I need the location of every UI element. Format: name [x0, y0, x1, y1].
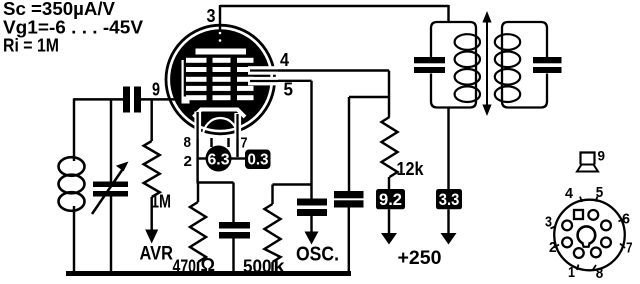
wire pin5 vertical to osc cap — [310, 81, 312, 199]
wire varcap branch lower — [110, 197, 112, 273]
socket pin 5 — [588, 210, 598, 220]
resistor R1 1M zigzag — [144, 141, 160, 197]
tube internal wires black — [198, 71, 278, 141]
variable capacitor C1 plates — [93, 182, 128, 188]
svg-text:AVR: AVR — [140, 244, 174, 265]
svg-text:Ω: Ω — [201, 255, 216, 275]
AVR arrowhead — [145, 230, 158, 244]
wire pin7 down — [236, 112, 238, 157]
svg-text:3: 3 — [545, 214, 552, 231]
chassis ground rail — [66, 271, 351, 276]
tube anode bar — [196, 49, 247, 55]
capacitor C6 left tank — [414, 57, 445, 63]
svg-text:470: 470 — [173, 257, 197, 277]
svg-text:9.2: 9.2 — [379, 191, 402, 209]
wire heater stub right — [227, 138, 229, 147]
wire 470 bottom lead — [197, 262, 199, 272]
svg-text:5: 5 — [284, 80, 294, 100]
wire 500k bottom lead — [271, 262, 273, 272]
wire 1M branch — [150, 99, 152, 141]
wire osc arrow shaft — [310, 216, 312, 234]
svg-text:OSC.: OSC. — [296, 244, 339, 266]
svg-text:6.3: 6.3 — [208, 152, 230, 169]
socket pin 3 — [562, 221, 572, 231]
T1 tuning arrow — [486, 20, 488, 108]
svg-text:3: 3 — [207, 6, 216, 26]
socket pin 4 square — [574, 210, 583, 219]
wire pin5 horizontal — [250, 80, 312, 82]
socket pin 1 — [574, 248, 584, 258]
box 3.3 (mA) — [436, 189, 462, 209]
capacitor C5 screen bypass — [334, 191, 364, 198]
wire tank entry vertical — [447, 5, 449, 22]
socket circle — [554, 200, 625, 271]
wire pin4 vertical to 12k — [388, 71, 390, 118]
wire screen branch vertical to cap — [348, 97, 350, 191]
tube V1 inner disk — [170, 29, 270, 129]
svg-text:3.3: 3.3 — [439, 191, 460, 209]
T1 secondary winding loops — [495, 34, 520, 102]
socket pin 7 — [601, 238, 611, 248]
capacitor C7 right tank — [533, 57, 562, 63]
svg-text:1: 1 — [568, 264, 575, 281]
wire 500k top horizontal — [273, 183, 312, 185]
tube pin3 white dots — [219, 32, 222, 35]
svg-text:6: 6 — [622, 211, 630, 228]
wire 470 top lead — [197, 183, 199, 203]
wire 9.2 arrow shaft — [388, 209, 390, 234]
svg-text:k: k — [274, 257, 286, 277]
capacitor C4 osc coupling — [297, 199, 327, 206]
socket pin 2 — [562, 238, 572, 248]
socket pin 6 — [601, 221, 611, 231]
wire 12k to 9.2 box — [388, 177, 390, 189]
tube grid side rod — [182, 60, 184, 101]
wire 3.3 arrow shaft — [447, 209, 449, 234]
wire cathode junction horizontal — [197, 181, 234, 183]
wire pin2 cathode down — [196, 106, 198, 183]
svg-text:7: 7 — [626, 240, 633, 257]
wire left rail lower — [73, 206, 75, 272]
resistor R3 500k zigzag — [265, 204, 281, 262]
wire left rail upper — [73, 98, 75, 161]
variable capacitor arrow — [92, 168, 124, 214]
box 9.2 (mA) — [376, 189, 405, 209]
wire left horizontal grid line — [74, 98, 123, 100]
IF transformer T1 left tank loop with cap gap — [431, 22, 476, 108]
svg-text:2: 2 — [184, 153, 193, 170]
wire pin3 vertical into tube — [219, 5, 221, 30]
wire cath cap bottom lead — [232, 239, 234, 273]
svg-text:0.3: 0.3 — [248, 152, 269, 169]
svg-text:7: 7 — [241, 135, 248, 152]
svg-text:1M: 1M — [151, 192, 171, 212]
arrow +250 left — [381, 233, 397, 245]
socket top cap symbol — [581, 153, 595, 165]
wire cath cap top lead — [232, 183, 234, 223]
resistor R2 470 zigzag — [190, 202, 206, 262]
OSC arrowhead — [305, 232, 319, 245]
tube V1 outer envelope — [166, 25, 275, 134]
socket spigot key — [578, 226, 596, 244]
capacitor C3 cathode bypass — [219, 222, 250, 229]
svg-text:500: 500 — [243, 257, 272, 277]
svg-text:9: 9 — [152, 80, 160, 100]
socket ticks — [551, 197, 626, 271]
svg-text:+250: +250 — [398, 247, 442, 269]
svg-text:8: 8 — [184, 134, 192, 151]
svg-text:9: 9 — [598, 148, 606, 164]
wire screen cap to rail — [348, 208, 350, 274]
svg-text:12k: 12k — [397, 159, 425, 179]
svg-text:5: 5 — [596, 184, 604, 201]
svg-text:Sc =350µA/V: Sc =350µA/V — [3, 0, 115, 19]
resistor R4 12k zigzag — [382, 117, 398, 177]
wire heater left link — [198, 157, 208, 159]
wire grid cap to tube — [141, 98, 186, 100]
svg-text:Ri = 1M: Ri = 1M — [3, 35, 59, 55]
svg-text:8: 8 — [596, 265, 604, 282]
svg-text:4: 4 — [565, 185, 574, 202]
svg-text:4: 4 — [280, 50, 289, 70]
wire pin4 horizontal — [250, 69, 389, 71]
T1 primary winding loops — [455, 34, 480, 102]
IF transformer T1 right tank loop with cap gap — [502, 22, 547, 108]
wire 500k top lead — [271, 185, 273, 205]
socket pin 8 — [591, 248, 601, 258]
wire screen branch horizontal — [349, 96, 389, 98]
capacitor C2 grid series cap — [123, 87, 130, 113]
heater circle 6.3 — [206, 146, 232, 172]
wire top from pin3 to left IF tank — [220, 5, 449, 7]
wire heater stub left — [210, 138, 212, 147]
heater box 0.3 — [245, 150, 271, 170]
tube pin channels white — [248, 66, 278, 75]
tube grid dashes — [186, 58, 254, 100]
arrow +250 right — [441, 233, 457, 245]
wire heater right link to 0.3 — [231, 157, 246, 159]
tube heater dome — [203, 118, 238, 136]
wire varcap branch upper — [110, 99, 112, 181]
wire 1M to AVR arrow shaft — [150, 197, 152, 231]
wire tank exit to 3.3 box — [447, 108, 449, 190]
svg-text:2: 2 — [549, 239, 557, 256]
tube cathode plate — [194, 110, 246, 118]
inductor L1 antenna coil — [59, 157, 85, 211]
